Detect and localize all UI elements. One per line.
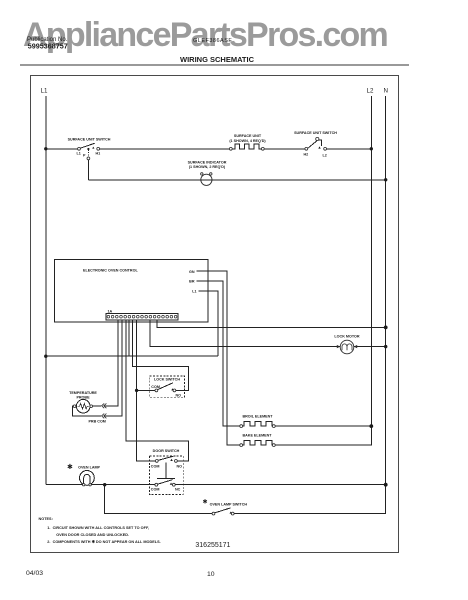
svg-text:OVEN LAMP: OVEN LAMP [78,466,100,470]
svg-text:1. CIRCUIT SHOWN WITH ALL CON: 1. CIRCUIT SHOWN WITH ALL CONTROLS SET T… [47,526,149,530]
svg-text:SURFACE UNIT: SURFACE UNIT [234,134,262,138]
svg-text:WIRING SCHEMATIC: WIRING SCHEMATIC [180,55,255,64]
svg-text:OVEN DOOR CLOSED AND UNLOCKED.: OVEN DOOR CLOSED AND UNLOCKED. [56,533,129,537]
svg-text:COM: COM [151,488,160,492]
svg-text:SURFACE INDICATOR: SURFACE INDICATOR [188,160,227,164]
svg-text:L1: L1 [41,88,48,95]
svg-text:5995368757: 5995368757 [28,42,68,51]
svg-text:L2: L2 [323,154,327,158]
svg-text:N: N [384,88,388,95]
svg-text:COM: COM [151,385,160,389]
svg-text:(1 SHOWN, 2 REQ'D): (1 SHOWN, 2 REQ'D) [189,165,226,169]
svg-text:BAKE ELEMENT: BAKE ELEMENT [242,434,272,438]
svg-text:(1 SHOWN, 4 REQ'D): (1 SHOWN, 4 REQ'D) [229,139,266,143]
svg-text:ELECTRONIC OVEN CONTROL: ELECTRONIC OVEN CONTROL [83,269,138,273]
svg-text:SURFACE UNIT SWITCH: SURFACE UNIT SWITCH [68,138,111,142]
svg-text:BR: BR [189,280,195,284]
svg-text:PROBE: PROBE [76,395,90,399]
svg-text:316255171: 316255171 [195,542,230,549]
svg-text:L1: L1 [77,152,81,156]
svg-text:04/03: 04/03 [26,570,43,577]
svg-text:1A: 1A [108,310,113,314]
svg-text:NO: NO [177,465,183,469]
svg-text:DOOR SWITCH: DOOR SWITCH [153,449,180,453]
svg-text:H1: H1 [96,152,101,156]
svg-text:OVEN LAMP SWITCH: OVEN LAMP SWITCH [210,503,248,507]
svg-text:✱: ✱ [67,463,73,471]
svg-text:L2: L2 [367,88,374,95]
svg-text:LOCK SWITCH: LOCK SWITCH [154,377,180,381]
svg-text:GLEF386ASF: GLEF386ASF [193,38,232,44]
svg-text:H2: H2 [304,153,309,157]
svg-text:LOCK MOTOR: LOCK MOTOR [334,335,359,339]
svg-text:NC: NC [175,488,181,492]
svg-text:GN: GN [189,270,195,274]
svg-text:BROIL ELEMENT: BROIL ELEMENT [242,415,273,419]
svg-text:2. COMPONENTS WITH ✱ DO NOT A: 2. COMPONENTS WITH ✱ DO NOT APPEAR ON AL… [47,539,160,544]
svg-text:P: P [83,154,86,158]
svg-text:L1: L1 [192,290,196,294]
svg-text:TEMPERATURE: TEMPERATURE [69,391,97,395]
svg-text:COM: COM [151,465,160,469]
svg-text:SURFACE UNIT SWITCH: SURFACE UNIT SWITCH [294,131,337,135]
svg-text:AppliancePartsPros.com: AppliancePartsPros.com [23,16,387,54]
svg-text:NO: NO [176,394,182,398]
svg-text:NOTES:: NOTES: [39,517,53,521]
svg-text:10: 10 [207,571,215,578]
svg-text:PRB COM: PRB COM [88,419,105,423]
svg-text:✱: ✱ [203,499,208,506]
